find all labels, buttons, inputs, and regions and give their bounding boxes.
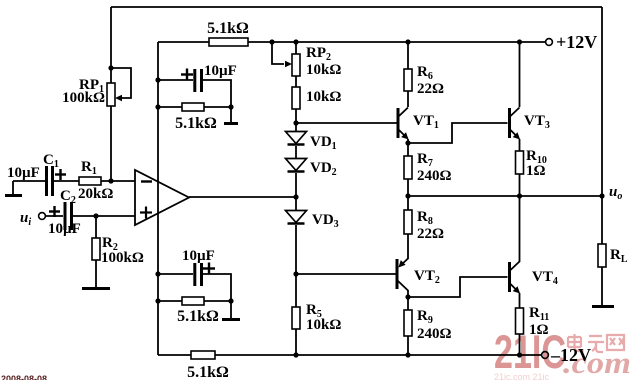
node RP2 top on +12V rail xyxy=(293,39,298,44)
VT4 emitter arrowhead xyxy=(513,286,520,293)
wire RP2 wiper bracket xyxy=(272,42,284,64)
node R1/RP1 junction xyxy=(108,178,113,183)
svg-text:22Ω: 22Ω xyxy=(417,226,444,242)
wire VD1 to VD2 xyxy=(295,146,297,158)
wire junction down to ground xyxy=(230,107,232,122)
svg-text:10µF: 10µF xyxy=(204,63,237,79)
ground for upper network xyxy=(224,122,238,125)
wire VD3 to R5 xyxy=(295,225,297,307)
wire RP2 top lead xyxy=(295,42,297,54)
wire VT1 emitter to node xyxy=(407,139,409,143)
potentiometer RP2 body 10k xyxy=(292,54,300,76)
resistor 10k bias xyxy=(292,87,300,109)
node lower network res tap xyxy=(155,298,160,303)
capacitor upper 10uF xyxy=(195,69,202,92)
wire R6 to VT1 collector xyxy=(407,91,409,107)
resistor 5.1k bottom rail xyxy=(191,351,215,359)
node R7/R8 on output rail xyxy=(405,193,410,198)
resistor R10 1ohm xyxy=(516,151,524,174)
wire ground to C1 xyxy=(13,180,45,182)
svg-text:21IC: 21IC xyxy=(494,325,566,378)
wire R9 to -12V rail xyxy=(407,336,409,355)
node bias/VT1 base junction xyxy=(293,120,298,125)
svg-text:10µF: 10µF xyxy=(182,248,215,264)
wire to upper 5.1k xyxy=(158,106,182,108)
node VT1 emitter junction xyxy=(405,140,410,145)
wire upper cap to right corner xyxy=(203,80,231,107)
node C2/R2 junction xyxy=(93,213,98,218)
wire R7 to output rail xyxy=(407,179,409,196)
node output rail to load junction xyxy=(599,193,604,198)
node R6 on +12V rail xyxy=(405,39,410,44)
VT3 emitter arrowhead xyxy=(513,132,520,139)
wire R11 to -12V rail xyxy=(519,334,521,355)
op-amp plus sign xyxy=(140,207,152,219)
ground for R2 xyxy=(82,287,110,290)
resistor R5 10k xyxy=(292,307,300,329)
wire RL top lead xyxy=(601,196,603,244)
resistor upper 5.1k xyxy=(182,103,204,111)
wire to VT1 base xyxy=(296,122,397,124)
plus sign lower cap xyxy=(203,263,215,275)
node upper network res tap xyxy=(155,104,160,109)
node R9 on -12V rail xyxy=(405,352,410,357)
node upper network cap tap xyxy=(155,77,160,82)
transistor VT4 xyxy=(510,262,520,293)
svg-text:1Ω: 1Ω xyxy=(526,163,546,179)
wire R8 top lead xyxy=(407,196,409,210)
wire R10 to output rail xyxy=(519,174,521,196)
svg-text:5.1kΩ: 5.1kΩ xyxy=(187,364,229,380)
svg-text:21ic.com 21ic: 21ic.com 21ic xyxy=(494,372,550,380)
node R5 on -12V rail xyxy=(293,352,298,357)
svg-text:100kΩ: 100kΩ xyxy=(62,90,105,106)
capacitor lower 10uF xyxy=(195,263,202,286)
transistor VT2 xyxy=(397,259,408,291)
node diode chain / op-amp output xyxy=(293,194,298,199)
resistor lower 5.1k xyxy=(182,297,204,305)
resistor 5.1k top feedback xyxy=(209,38,248,46)
svg-text:10µF: 10µF xyxy=(7,165,40,181)
ground for C1 input xyxy=(5,181,22,196)
svg-text:100kΩ: 100kΩ xyxy=(101,250,144,266)
wire R9 top lead xyxy=(407,297,409,310)
wire R6 top lead xyxy=(407,42,409,69)
wire 10k to VD1 node xyxy=(295,109,297,131)
svg-text:10kΩ: 10kΩ xyxy=(306,317,341,333)
wire R7 top lead xyxy=(407,143,409,156)
watermark chinese dianzi wang xyxy=(568,334,624,352)
node R11 on -12V rail xyxy=(517,352,522,357)
wire R2 upper lead xyxy=(95,216,97,238)
svg-text:10kΩ: 10kΩ xyxy=(306,89,341,105)
wire lower 5.1k to junction xyxy=(204,300,231,302)
node upper network right junction xyxy=(228,104,233,109)
wire +12V rail xyxy=(158,41,546,43)
node RP2 wiper tap on +12V rail xyxy=(269,39,274,44)
wire VT4 emitter to R11 xyxy=(519,293,521,308)
resistor RL load xyxy=(598,244,606,267)
wire RP1 wiper bracket xyxy=(111,68,131,98)
wire u_i to C2 xyxy=(46,215,64,217)
wire upper 5.1k to junction xyxy=(204,106,231,108)
node lower network right junction xyxy=(228,298,233,303)
wire lower cap to right corner xyxy=(203,274,231,301)
plus sign C1 xyxy=(55,169,66,180)
node VT2 collector junction xyxy=(405,294,410,299)
resistor R1 20k xyxy=(79,177,101,185)
diode VD2 xyxy=(286,159,307,172)
wire -12V bottom rail xyxy=(158,354,542,356)
plus sign C2 xyxy=(49,206,60,217)
svg-text:5.1kΩ: 5.1kΩ xyxy=(177,308,219,325)
wire to upper 10uF cap xyxy=(158,79,193,81)
wire R8 to VT2 emitter xyxy=(407,234,409,259)
svg-text:+12V: +12V xyxy=(556,32,597,52)
svg-text:22Ω: 22Ω xyxy=(417,81,444,97)
RP2 wiper arrowhead xyxy=(285,61,292,67)
wire left drop from top rail to R1 node xyxy=(110,7,112,181)
wire inner left vertical xyxy=(157,42,159,355)
diode VD1 xyxy=(286,132,307,145)
wire C2 to op-amp non-inverting input xyxy=(73,215,135,217)
ground for lower network xyxy=(222,318,240,321)
potentiometer RP1 body xyxy=(107,83,115,106)
resistor R2 100k xyxy=(92,238,100,260)
wire output rail u_o xyxy=(408,195,602,197)
resistor R8 22ohm xyxy=(404,210,412,234)
ground for RL xyxy=(592,305,614,308)
transistor VT3 xyxy=(510,108,520,139)
wire op-amp output to diode node xyxy=(189,196,296,198)
svg-text:5.1kΩ: 5.1kΩ xyxy=(175,115,217,132)
node VT3 collector on +12V rail xyxy=(517,39,522,44)
wire top feedback rail xyxy=(111,6,602,8)
wire right drop from top rail to output node xyxy=(601,7,603,196)
wire to lower 10uF cap xyxy=(158,273,193,275)
wire VT1 emitter to VT3 base xyxy=(408,123,508,143)
plus sign upper cap xyxy=(181,69,193,81)
svg-text:5.1kΩ: 5.1kΩ xyxy=(207,20,249,37)
wire R5 to -12V rail xyxy=(295,329,297,355)
svg-text:10µF: 10µF xyxy=(48,221,81,237)
capacitor C1 10uF xyxy=(47,166,53,196)
svg-text:10kΩ: 10kΩ xyxy=(306,62,341,78)
RP1 wiper arrowhead xyxy=(115,95,122,101)
wire VT3 collector lead xyxy=(519,42,521,107)
svg-text:2008-08-08: 2008-08-08 xyxy=(1,374,47,380)
wire VT2 collector to node xyxy=(407,290,409,297)
resistor R7 240ohm xyxy=(404,156,412,179)
diode VD3 xyxy=(286,211,307,224)
wire VT4 collector lead xyxy=(519,196,521,262)
wire VT2 collector to VT4 base xyxy=(408,277,508,297)
terminal +12V xyxy=(546,39,553,46)
VT1 emitter arrowhead xyxy=(401,132,408,139)
op-amp minus sign xyxy=(141,180,152,182)
resistor R6 22ohm xyxy=(404,69,412,91)
terminal u_i xyxy=(39,213,46,220)
capacitor C2 10uF xyxy=(65,202,72,230)
wire VT3 emitter to R10 xyxy=(519,139,521,151)
svg-text:.com: .com xyxy=(563,345,631,380)
svg-text:240Ω: 240Ω xyxy=(417,168,452,184)
VT2 emitter arrowhead (PNP into base) xyxy=(398,260,405,267)
node lower network cap tap xyxy=(155,271,160,276)
wire C1 to R1 xyxy=(54,180,79,182)
wire R2 to ground xyxy=(95,260,97,287)
wire junction down to ground xyxy=(230,301,232,318)
node VD3/VT2 base junction xyxy=(293,271,298,276)
node RP1 wiper tap xyxy=(108,65,113,70)
wire VD2 to output node xyxy=(295,173,297,210)
wire RP2 to 10k resistor xyxy=(295,76,297,87)
transistor VT1 xyxy=(398,108,408,139)
wire RL to ground xyxy=(601,267,603,305)
wire to lower 5.1k xyxy=(158,300,182,302)
wire R1 to op-amp inverting input xyxy=(101,180,135,182)
resistor R9 240ohm xyxy=(404,310,412,336)
wire to VT2 base xyxy=(296,273,396,275)
op-amp U1 triangle xyxy=(135,170,189,225)
svg-text:20kΩ: 20kΩ xyxy=(78,186,113,202)
terminal -12V xyxy=(542,352,549,359)
svg-text:240Ω: 240Ω xyxy=(417,326,452,342)
resistor R11 1ohm xyxy=(516,308,524,334)
node R10/VT4 on output rail xyxy=(517,193,522,198)
